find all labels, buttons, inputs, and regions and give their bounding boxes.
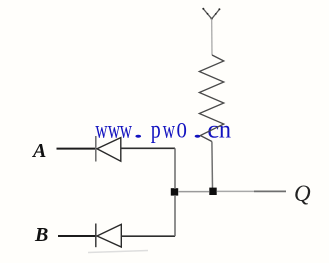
wire: Vcc to resistor top (211, 19, 213, 56)
svg-text:n: n (219, 116, 232, 143)
wire: input B lead (58, 235, 95, 237)
wire: corner up to node (B branch) (174, 195, 176, 236)
node A junction dot (left) (171, 188, 178, 195)
svg-text:w: w (120, 116, 132, 143)
label B (35, 224, 48, 247)
label Q (294, 181, 311, 207)
diode D1 triangle (97, 138, 121, 162)
svg-text:p: p (151, 116, 161, 143)
wire: output lead to Q (dark segment) (254, 190, 286, 192)
wire: corner down to node (A branch) (174, 148, 176, 189)
svg-text:.: . (132, 116, 144, 143)
label A (33, 140, 46, 163)
scan smudge under diode D2 (88, 251, 148, 253)
wire: output lead to Q (light segment) (217, 190, 254, 192)
svg-text:.: . (192, 116, 204, 143)
watermark text www. pw0. cn (95, 116, 231, 143)
wire: input A lead (57, 148, 96, 150)
diode D2 triangle (97, 224, 121, 247)
wire: diode D2 to corner (121, 235, 175, 237)
resistor R (199, 55, 224, 142)
diode D2 cathode bar (95, 224, 97, 248)
svg-text:w: w (95, 116, 107, 143)
power supply arrow (Vcc) (202, 8, 220, 20)
node B junction dot (right, under resistor) (209, 188, 216, 195)
svg-text:0: 0 (177, 117, 187, 142)
diode D1 cathode bar (95, 136, 97, 162)
wire: node-to-node output bus (178, 191, 209, 193)
svg-text:c: c (207, 116, 219, 143)
wire: resistor bottom to node (211, 142, 214, 189)
wire: diode D1 to corner (121, 147, 175, 149)
svg-text:w: w (163, 116, 175, 143)
